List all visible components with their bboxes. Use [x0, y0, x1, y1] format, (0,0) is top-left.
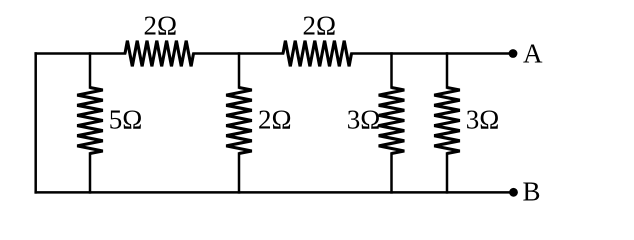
svg-text:3Ω: 3Ω [466, 105, 500, 135]
svg-text:5Ω: 5Ω [109, 105, 143, 135]
svg-text:3Ω: 3Ω [347, 105, 381, 135]
svg-text:2Ω: 2Ω [144, 11, 178, 41]
svg-text:A: A [523, 39, 543, 69]
svg-text:2Ω: 2Ω [258, 105, 292, 135]
svg-text:2Ω: 2Ω [303, 11, 337, 41]
svg-text:B: B [523, 177, 541, 207]
